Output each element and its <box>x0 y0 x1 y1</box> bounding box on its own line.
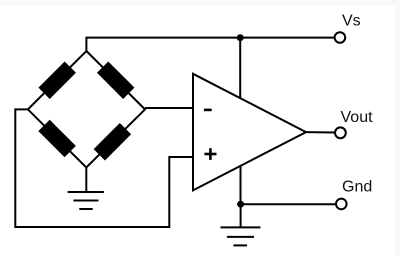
wheatstone bridge diamond <box>28 51 145 168</box>
wire ground junction down to ground symbol <box>240 204 242 227</box>
svg-text:Vs: Vs <box>342 13 361 30</box>
op-amp U1 <box>193 74 306 191</box>
resistor R1 (top-left arm) <box>38 61 75 98</box>
wire top supply rail from bridge top to Vs terminal <box>86 38 334 51</box>
node Vs terminal <box>335 32 346 43</box>
resistor R3 (bottom-left arm) <box>38 120 75 157</box>
wire bridge right node to op-amp - input <box>145 107 193 109</box>
wire op-amp output to Vout terminal <box>306 131 335 133</box>
node ground junction <box>237 201 244 208</box>
ground (bridge) <box>68 192 104 209</box>
node supply junction <box>237 34 244 41</box>
wire bridge bottom node to ground <box>85 166 87 192</box>
top page strip <box>0 0 400 7</box>
node Vout terminal <box>335 127 346 138</box>
svg-text:Gnd: Gnd <box>342 179 372 196</box>
ground (op-amp supply) <box>221 227 261 245</box>
wire ground junction to Gnd terminal <box>241 203 336 205</box>
resistor R2 (top-right arm) <box>97 61 134 98</box>
op-amp inverting input - sign <box>204 109 212 112</box>
wire op-amp V- supply down to ground rail <box>240 166 242 204</box>
op-amp non-inverting input + sign <box>204 148 216 160</box>
resistor R4 (bottom-right arm) <box>94 123 131 160</box>
node Gnd terminal <box>336 199 347 210</box>
wire bridge left node around bottom to op-amp + input <box>15 109 193 227</box>
wire op-amp V+ supply from junction down to op-amp body <box>239 38 241 98</box>
right page strip <box>395 0 400 256</box>
svg-text:Vout: Vout <box>341 109 374 126</box>
